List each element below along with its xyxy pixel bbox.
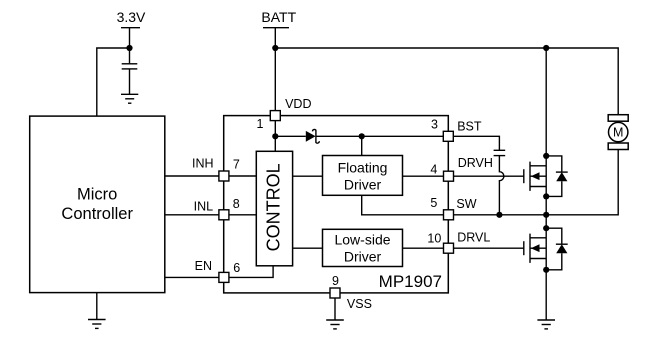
- wire VDD internal: [274, 121, 276, 152]
- wire diode to BST pin: [316, 135, 443, 137]
- wire 3.3V to microcontroller: [97, 48, 130, 116]
- node Q2 drain: [543, 225, 549, 231]
- svg-text:MP1907: MP1907: [379, 272, 442, 291]
- wire INL internal: [229, 214, 256, 216]
- node VDD internal junction: [272, 133, 278, 139]
- net BATT label: [261, 9, 296, 28]
- svg-text:BATT: BATT: [261, 9, 296, 25]
- svg-text:Low-side: Low-side: [334, 231, 390, 247]
- transistor Q1 high-side MOSFET: [524, 48, 546, 215]
- wire CONTROL to Floating Driver: [293, 175, 323, 177]
- svg-text:4: 4: [430, 163, 437, 177]
- pin 5 SW: [430, 196, 476, 220]
- svg-text:M: M: [613, 125, 623, 139]
- svg-text:8: 8: [233, 197, 240, 211]
- svg-text:10: 10: [427, 231, 441, 245]
- diode Q2 body: [546, 228, 568, 270]
- ground (3.3V decoupling): [121, 94, 138, 103]
- wire BATT vertical to VDD: [274, 28, 276, 111]
- Micro Controller block: [30, 116, 165, 293]
- wire EN from microcontroller: [165, 276, 219, 278]
- pin 7 INH: [192, 157, 240, 181]
- node bootstrap cap / SW: [496, 212, 502, 218]
- wire motor to SW rail: [453, 150, 618, 215]
- svg-text:INL: INL: [194, 200, 214, 214]
- wire VSS to ground: [334, 298, 336, 320]
- wire DRVH to high-side gate: [454, 175, 524, 177]
- svg-text:DRVH: DRVH: [458, 156, 493, 170]
- svg-text:VSS: VSS: [347, 297, 372, 311]
- node Q1 source: [543, 193, 549, 199]
- svg-text:VDD: VDD: [285, 97, 311, 111]
- wire cap to ground: [129, 69, 131, 94]
- node 3.3V junction: [126, 45, 132, 51]
- wire BST to bootstrap cap: [453, 136, 499, 150]
- IC MP1907 outline: [224, 116, 449, 293]
- wire INH internal: [229, 175, 256, 177]
- svg-text:9: 9: [332, 274, 339, 288]
- wire EN internal to CONTROL: [229, 266, 273, 278]
- node SW / half-bridge midpoint: [543, 212, 549, 218]
- net 3.3V label: [117, 9, 146, 28]
- diode Q1 body: [546, 156, 568, 197]
- svg-text:INH: INH: [192, 157, 214, 171]
- wire microcontroller to ground: [96, 293, 98, 320]
- ground (VSS): [326, 320, 344, 329]
- svg-text:SW: SW: [456, 197, 476, 211]
- wire Low-side Driver to DRVL pin: [403, 247, 444, 249]
- wire DRVL to low-side gate: [454, 247, 524, 249]
- CONTROL block: [256, 151, 292, 265]
- svg-text:5: 5: [430, 196, 437, 210]
- pin 10 DRVL: [427, 231, 490, 254]
- pin 9 VSS: [330, 274, 372, 311]
- wire Floating Driver to DRVH pin: [403, 175, 444, 177]
- pin 4 DRVH: [430, 156, 493, 181]
- ground (power stage): [537, 320, 555, 329]
- pin 6 EN: [195, 259, 241, 282]
- pin 8 INL: [194, 197, 240, 220]
- svg-text:Controller: Controller: [61, 205, 133, 223]
- Floating Driver block: [323, 156, 403, 196]
- capacitor C2 bootstrap: [494, 150, 506, 155]
- diode D1 bootstrap (schottky): [306, 129, 320, 143]
- node Q1 drain: [543, 153, 549, 159]
- svg-text:DRVL: DRVL: [457, 231, 490, 245]
- motor M1: [608, 115, 628, 150]
- Low-side Driver block: [323, 229, 403, 266]
- wire branch to floating driver: [361, 136, 363, 155]
- wire VDD to bootstrap diode: [275, 135, 306, 137]
- svg-text:Driver: Driver: [344, 248, 382, 264]
- svg-text:Driver: Driver: [344, 177, 382, 193]
- svg-text:3.3V: 3.3V: [117, 9, 146, 25]
- svg-text:EN: EN: [195, 259, 212, 273]
- ground (microcontroller): [88, 320, 106, 329]
- svg-text:6: 6: [233, 261, 240, 275]
- pin 3 BST: [431, 118, 482, 142]
- node Q2 source: [543, 267, 549, 273]
- node BST / floating driver branch: [359, 133, 365, 139]
- svg-text:Micro: Micro: [77, 186, 117, 204]
- capacitor C1: [122, 64, 138, 69]
- svg-text:3: 3: [431, 118, 438, 132]
- svg-text:BST: BST: [457, 120, 482, 134]
- node BATT junction: [272, 45, 278, 51]
- wire INL from microcontroller: [165, 214, 219, 216]
- transistor Q2 low-side MOSFET: [524, 215, 546, 320]
- wire INH from microcontroller: [165, 175, 219, 177]
- svg-text:1: 1: [257, 117, 264, 131]
- wire BATT rail: [275, 48, 618, 115]
- svg-text:Floating: Floating: [338, 160, 388, 176]
- wire cap to SW with hop over DRVH: [499, 156, 504, 215]
- node BATT / high-side drain: [543, 45, 549, 51]
- svg-text:7: 7: [233, 158, 240, 172]
- wire CONTROL to Low-side Driver: [293, 247, 323, 249]
- pin 1 VDD: [257, 97, 312, 131]
- wire Floating Driver to SW pin: [362, 195, 444, 215]
- wire 3.3V vertical: [129, 28, 131, 64]
- svg-text:CONTROL: CONTROL: [264, 163, 284, 251]
